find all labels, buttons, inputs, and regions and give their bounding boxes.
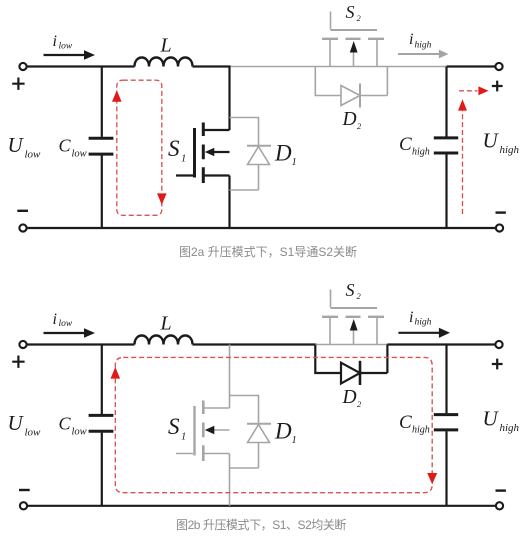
wire D2 to Chigh node fig2b: [387, 343, 495, 345]
current arrow i_low fig2b: [44, 328, 96, 338]
plus sign high side fig2b: [492, 359, 503, 370]
red current loop fig2a: [117, 80, 162, 215]
svg-text:D: D: [342, 387, 357, 408]
terminal high+ (fig2b top-right): [495, 341, 502, 348]
diode D1 fig2b (gray, off): [230, 396, 272, 469]
terminal low+ (fig2a top-left): [19, 63, 26, 70]
minus sign high side fig2b: [496, 489, 506, 491]
terminal low- (fig2b bottom-left): [20, 502, 27, 509]
svg-text:high: high: [500, 422, 520, 434]
svg-text:1: 1: [292, 157, 297, 168]
svg-text:high: high: [412, 146, 430, 157]
svg-text:C: C: [399, 134, 412, 155]
label S2 fig2b: [346, 280, 362, 301]
wire bottom fig2a: [27, 227, 496, 229]
svg-text:high: high: [415, 41, 432, 51]
svg-text:low: low: [25, 427, 42, 439]
svg-text:1: 1: [292, 435, 297, 446]
svg-text:S: S: [168, 414, 180, 439]
diode D2 fig2a (gray, off): [315, 67, 387, 108]
inductor L fig2a: [135, 58, 193, 67]
label i_low fig2b: [53, 311, 73, 329]
label Chigh fig2b: [399, 412, 430, 435]
svg-text:图2a 升压模式下，S1导通S2关断: 图2a 升压模式下，S1导通S2关断: [179, 244, 357, 259]
wire S1 node to S2 region fig2a (gray): [231, 66, 446, 68]
svg-text:i: i: [409, 31, 413, 48]
plus sign low side fig2a: [12, 78, 24, 90]
label i_high fig2a: [409, 31, 432, 51]
label S1 fig2b: [168, 414, 186, 443]
svg-text:U: U: [483, 407, 500, 431]
svg-text:1: 1: [181, 432, 186, 443]
minus sign high side fig2a: [496, 211, 506, 213]
wire inductor to D2 branch fig2b: [193, 343, 317, 345]
svg-text:low: low: [59, 319, 73, 329]
label D2 fig2b: [342, 387, 363, 409]
red loop down-arrow fig2a: [157, 193, 167, 204]
terminal high- (fig2b bottom-right): [496, 502, 503, 509]
svg-text:high: high: [415, 318, 432, 328]
diode D2 fig2b (black, conducting): [315, 345, 387, 386]
terminal low+ (fig2b top-left): [19, 341, 26, 348]
caption fig2b: [176, 517, 346, 532]
label Clow fig2b: [59, 414, 87, 438]
label L fig2a: [160, 35, 172, 57]
svg-text:D: D: [274, 141, 292, 166]
svg-text:C: C: [59, 414, 72, 434]
label L fig2b: [160, 313, 172, 335]
red charge arrow horizontal fig2a: [459, 86, 489, 95]
svg-text:low: low: [59, 41, 73, 51]
svg-text:S: S: [346, 2, 355, 22]
caption fig2a: [179, 244, 357, 259]
mosfet S2 fig2a (gray, off): [322, 12, 384, 67]
svg-text:U: U: [483, 129, 500, 153]
svg-text:1: 1: [181, 154, 186, 165]
current arrow i_low fig2a: [44, 50, 96, 60]
red loop down-arrow fig2b: [427, 473, 437, 484]
svg-text:S: S: [168, 136, 180, 161]
mosfet S1 fig2b (gray, off): [176, 345, 230, 506]
svg-text:i: i: [53, 311, 57, 328]
svg-text:2: 2: [357, 13, 362, 23]
plus sign low side fig2b: [12, 356, 24, 368]
label i_low fig2a: [53, 33, 73, 51]
capacitor Clow fig2b: [89, 345, 114, 506]
label i_high fig2b: [409, 309, 432, 328]
red current loop fig2b: [115, 357, 432, 492]
svg-text:U: U: [8, 411, 25, 435]
mosfet S2 fig2b (gray, off): [322, 290, 384, 345]
label Chigh fig2a: [399, 134, 430, 157]
svg-text:high: high: [500, 144, 520, 156]
red charge arrow vertical fig2a: [458, 99, 467, 214]
svg-text:C: C: [59, 136, 72, 156]
svg-text:C: C: [399, 412, 412, 433]
wire top-left fig2a: [27, 65, 135, 67]
label U_high fig2b: [483, 407, 520, 434]
wire top-left fig2b: [27, 343, 134, 345]
label U_low fig2a: [8, 133, 42, 161]
current arrow i_high fig2a (gray): [398, 50, 449, 59]
svg-text:D: D: [274, 419, 292, 444]
label U_low fig2b: [8, 411, 42, 439]
capacitor Chigh fig2a: [434, 67, 458, 229]
svg-text:U: U: [8, 133, 25, 157]
label U_high fig2a: [483, 129, 520, 156]
inductor L fig2b: [135, 336, 193, 345]
wire bottom fig2b: [27, 505, 496, 507]
svg-text:i: i: [409, 309, 413, 326]
svg-text:low: low: [25, 149, 42, 161]
label D1 fig2b: [274, 419, 297, 447]
minus sign low side fig2a: [17, 210, 28, 212]
svg-text:L: L: [160, 35, 172, 57]
label Clow fig2a: [59, 136, 87, 160]
label D2 fig2a: [342, 109, 363, 131]
svg-text:2: 2: [357, 399, 362, 409]
label S1 fig2a: [168, 136, 186, 165]
terminal low- (fig2a bottom-left): [19, 224, 26, 231]
gray S2 channel wire fig2b: [315, 344, 388, 346]
svg-text:high: high: [412, 424, 430, 435]
svg-text:i: i: [53, 33, 57, 50]
label S2 fig2a: [346, 2, 362, 23]
minus sign low side fig2b: [19, 489, 30, 491]
svg-text:L: L: [160, 313, 172, 335]
red loop up-arrow fig2b: [111, 367, 121, 379]
terminal high- (fig2a bottom-right): [496, 224, 503, 231]
wire inductor to S1 drain node fig2a: [193, 65, 231, 67]
wire Chigh node to terminal fig2a: [447, 65, 496, 67]
capacitor Chigh fig2b: [434, 345, 458, 506]
svg-text:2: 2: [357, 121, 362, 131]
terminal high+ (fig2a top-right): [495, 63, 502, 70]
label D1 fig2a: [274, 141, 297, 169]
svg-text:2: 2: [357, 291, 362, 301]
mosfet S1 fig2a (black, on): [176, 67, 230, 229]
current arrow i_high fig2b: [398, 328, 450, 338]
capacitor Clow fig2a: [89, 67, 114, 229]
svg-text:low: low: [72, 427, 87, 438]
red loop up-arrow fig2a: [112, 90, 122, 102]
diode D1 fig2a (gray, off): [230, 118, 272, 191]
svg-text:low: low: [72, 149, 87, 160]
svg-text:图2b 升压模式下，S1、S2均关断: 图2b 升压模式下，S1、S2均关断: [176, 517, 346, 532]
plus sign high side fig2a: [492, 81, 503, 92]
svg-text:D: D: [342, 109, 357, 130]
svg-text:S: S: [346, 280, 355, 300]
